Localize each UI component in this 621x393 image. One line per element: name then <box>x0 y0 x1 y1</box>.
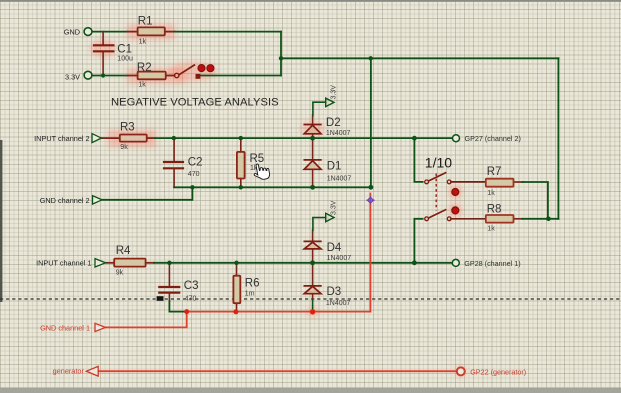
diode D2 <box>304 125 322 134</box>
diode D4 <box>304 241 322 249</box>
junction dot D4 bottom <box>310 260 315 265</box>
svg-text:GND: GND <box>64 27 80 36</box>
svg-text:3.3V: 3.3V <box>65 72 80 81</box>
svg-text:D1: D1 <box>327 160 342 172</box>
svg-text:GP28 (channel 1): GP28 (channel 1) <box>464 259 520 268</box>
junction dot bus mid <box>369 56 373 60</box>
diode D3 bottom lead red part <box>312 294 314 300</box>
marker origin cross <box>366 196 374 204</box>
switch SW2 upper 1/10 <box>425 172 451 183</box>
switch SW1 <box>175 65 214 79</box>
highlight glow D2 <box>301 121 325 137</box>
diode D1 <box>304 160 322 169</box>
wire INPUT1 to R4 <box>106 262 115 264</box>
svg-text:1N4007: 1N4007 <box>326 130 351 137</box>
highlight glow switch SW1 <box>169 62 217 82</box>
svg-text:R4: R4 <box>116 245 131 257</box>
highlight glow R2 <box>127 68 185 84</box>
wire SW2 to R7 <box>451 181 486 183</box>
diode D4 bottom lead <box>312 249 314 263</box>
terminal GP27 circle <box>453 135 460 142</box>
junction dot R6 top <box>234 261 238 265</box>
red generator wire <box>98 370 457 372</box>
svg-text:1k: 1k <box>487 226 495 233</box>
wire INPUT2 to R3 <box>101 137 119 139</box>
svg-text:R6: R6 <box>245 278 260 290</box>
svg-text:1k: 1k <box>487 190 495 197</box>
resistor R1 <box>138 27 165 35</box>
svg-text:GP22 (generator): GP22 (generator) <box>470 368 526 377</box>
svg-text:INPUT channel 2: INPUT channel 2 <box>34 134 89 143</box>
junction dot C3 top <box>167 261 171 265</box>
junction dot bus left <box>279 56 283 60</box>
highlight glow GP22 <box>455 365 467 377</box>
capacitor C1 plates <box>94 45 113 51</box>
wire GND terminal to R1 <box>93 31 128 33</box>
wire R4 right pin <box>146 262 154 264</box>
svg-text:GND channel 1: GND channel 1 <box>40 323 90 332</box>
svg-text:NEGATIVE VOLTAGE ANALYSIS: NEGATIVE VOLTAGE ANALYSIS <box>111 96 279 108</box>
svg-text:3.3V: 3.3V <box>331 85 338 100</box>
junction dot D2-D1 <box>310 136 315 141</box>
svg-text:R5: R5 <box>250 153 265 165</box>
red horizontal wire y311 <box>187 311 371 313</box>
diode D3 top lead <box>312 263 314 286</box>
highlight glow R3 <box>108 130 156 147</box>
resistor R3 <box>120 135 147 142</box>
switch gang dashed link <box>435 174 437 211</box>
svg-text:R7: R7 <box>487 166 502 178</box>
resistor R5 <box>237 152 245 179</box>
resistor R6 bottom pin <box>236 303 238 312</box>
power arrow 3.3V lower triangle <box>326 213 334 221</box>
red GND1 stub <box>106 312 187 328</box>
junction dot R7-R8 right <box>546 217 551 222</box>
junction dot mid vertical bottom <box>369 185 374 190</box>
junction dot switch branch upper <box>412 136 417 141</box>
diode D2 bottom lead <box>312 134 314 138</box>
svg-text:C1: C1 <box>117 43 132 55</box>
terminal GND channel 2 arrow <box>93 196 103 205</box>
wire 3.3V terminal to R2 <box>93 75 128 77</box>
diode D2 top lead <box>312 115 314 125</box>
svg-text:1k: 1k <box>138 82 146 89</box>
resistor R6 <box>233 276 240 304</box>
wire R2 left pin <box>128 75 138 77</box>
svg-text:1k: 1k <box>139 39 147 46</box>
svg-text:R1: R1 <box>138 15 153 27</box>
capacitor C3 plates <box>159 287 179 293</box>
left screen edge strip <box>0 140 2 302</box>
svg-text:470: 470 <box>185 296 197 303</box>
svg-text:9k: 9k <box>116 269 124 276</box>
diode D3 bottom lead green part <box>312 300 314 312</box>
resistor R7 <box>486 179 514 187</box>
switch SW3 lower 1/10 <box>425 209 451 220</box>
wire switch branch vertical lower <box>414 219 422 263</box>
junction dot C2 top <box>172 136 176 140</box>
capacitor C3 top lead <box>168 263 170 287</box>
svg-text:generator: generator <box>53 366 85 375</box>
svg-text:1/10: 1/10 <box>425 155 452 171</box>
diode D3 <box>304 286 322 294</box>
wire vertical corner x281 <box>280 32 282 76</box>
terminal GP28 circle <box>452 259 459 266</box>
terminal INPUT channel 2 arrow <box>92 134 101 143</box>
wire R1 to corner <box>175 31 282 33</box>
svg-text:9k: 9k <box>120 144 128 151</box>
wire R7 right pin <box>514 181 523 183</box>
svg-text:R8: R8 <box>487 203 502 215</box>
svg-text:C3: C3 <box>184 280 199 292</box>
wire R7 to right corner <box>523 182 548 219</box>
resistor R4 <box>114 259 145 267</box>
junction dot C1-3.3V <box>101 73 105 77</box>
wire switch branch vertical upper <box>414 138 422 182</box>
svg-text:R3: R3 <box>120 122 135 134</box>
wire R3 right pin <box>147 137 155 139</box>
diode D1 top lead <box>312 138 314 160</box>
terminal GND circle <box>84 28 92 36</box>
resistor R6 top pin <box>236 263 238 276</box>
svg-text:GND channel 2: GND channel 2 <box>40 196 90 205</box>
svg-text:R2: R2 <box>137 62 152 74</box>
capacitor C2 bottom lead <box>173 168 175 187</box>
svg-text:1m: 1m <box>245 291 255 298</box>
highlight glow R1 <box>127 24 175 40</box>
wire SW3 to R8 <box>451 218 486 220</box>
mouse hand cursor <box>253 162 271 180</box>
svg-text:1N4007: 1N4007 <box>326 300 351 307</box>
wire channel2 row <box>155 137 453 139</box>
junction dot R5 bottom <box>239 185 243 189</box>
capacitor C2 top lead <box>173 138 175 162</box>
svg-text:INPUT channel 1: INPUT channel 1 <box>36 258 91 267</box>
svg-text:470: 470 <box>188 171 200 178</box>
wire GND2 stub <box>102 187 192 200</box>
red vertical wire x370 <box>369 194 371 312</box>
red junction dot D3 bottom <box>310 309 315 314</box>
highlight glow indicator dots <box>448 185 462 199</box>
capacitor C2 plates <box>164 162 183 168</box>
svg-text:C2: C2 <box>188 157 203 169</box>
power arrow 3.3V lower wire <box>313 218 326 231</box>
resistor R5 top pin <box>240 138 242 152</box>
bottom screen edge band <box>0 388 621 393</box>
highlight glow C1 <box>90 40 116 58</box>
highlight glow D3 junction <box>307 307 318 318</box>
junction dot GND2 <box>190 185 194 189</box>
resistor R5 bottom pin <box>240 179 242 188</box>
resistor R8 <box>486 215 514 223</box>
svg-text:D2: D2 <box>326 117 341 129</box>
wire switch SW1 to corner <box>201 75 281 77</box>
power arrow 3.3V upper triangle <box>326 98 334 106</box>
wire mid vertical x371 green <box>370 58 372 187</box>
wire bus row y58 <box>281 57 558 59</box>
terminal 3.3V circle <box>84 71 92 79</box>
wire C3 to red net <box>169 301 186 312</box>
junction dot switch branch lower <box>412 260 417 265</box>
wire channel1 row <box>154 262 452 264</box>
switch indicator dot upper <box>452 189 459 196</box>
wire R1 left pin <box>128 31 138 33</box>
power arrow 3.3V upper wire <box>313 102 326 115</box>
terminal INPUT channel 1 arrow <box>95 259 106 267</box>
svg-text:100u: 100u <box>117 55 133 62</box>
svg-text:GP27 (channel 2): GP27 (channel 2) <box>465 134 521 143</box>
dashed divider line <box>0 298 621 300</box>
wire R2 right pin to switch <box>166 75 175 77</box>
red junction dot GND1 <box>184 309 189 314</box>
svg-text:3.3V: 3.3V <box>331 200 338 215</box>
red junction dot R6 bottom <box>233 309 238 314</box>
terminal GP22 circle <box>457 367 465 375</box>
wire R8 right pin <box>514 218 523 220</box>
capacitor C1 top lead <box>102 32 104 46</box>
terminal generator arrow <box>86 366 98 376</box>
wire right vertical x558 <box>557 58 559 219</box>
junction dot D1 bottom <box>310 185 315 190</box>
wire channel2 bottom row <box>174 186 371 188</box>
top screen edge band <box>0 0 621 2</box>
terminal GND channel 1 arrow <box>95 323 106 331</box>
switch indicator dot lower <box>452 207 459 214</box>
diode D1 bottom lead <box>312 169 314 187</box>
svg-text:D4: D4 <box>327 242 342 254</box>
resistor R2 <box>138 72 166 80</box>
svg-text:D3: D3 <box>327 286 342 298</box>
svg-text:1N4007: 1N4007 <box>327 176 352 183</box>
junction dot R5 top <box>239 136 243 140</box>
capacitor C3 bottom lead <box>168 293 170 301</box>
diode D4 top lead <box>312 230 314 241</box>
wire R8 to right vertical <box>523 218 559 220</box>
marker black square C3 <box>157 296 164 301</box>
wire R1 right pin <box>165 31 175 33</box>
svg-text:1N4007: 1N4007 <box>327 255 352 262</box>
capacitor C1 bottom lead <box>102 51 104 75</box>
